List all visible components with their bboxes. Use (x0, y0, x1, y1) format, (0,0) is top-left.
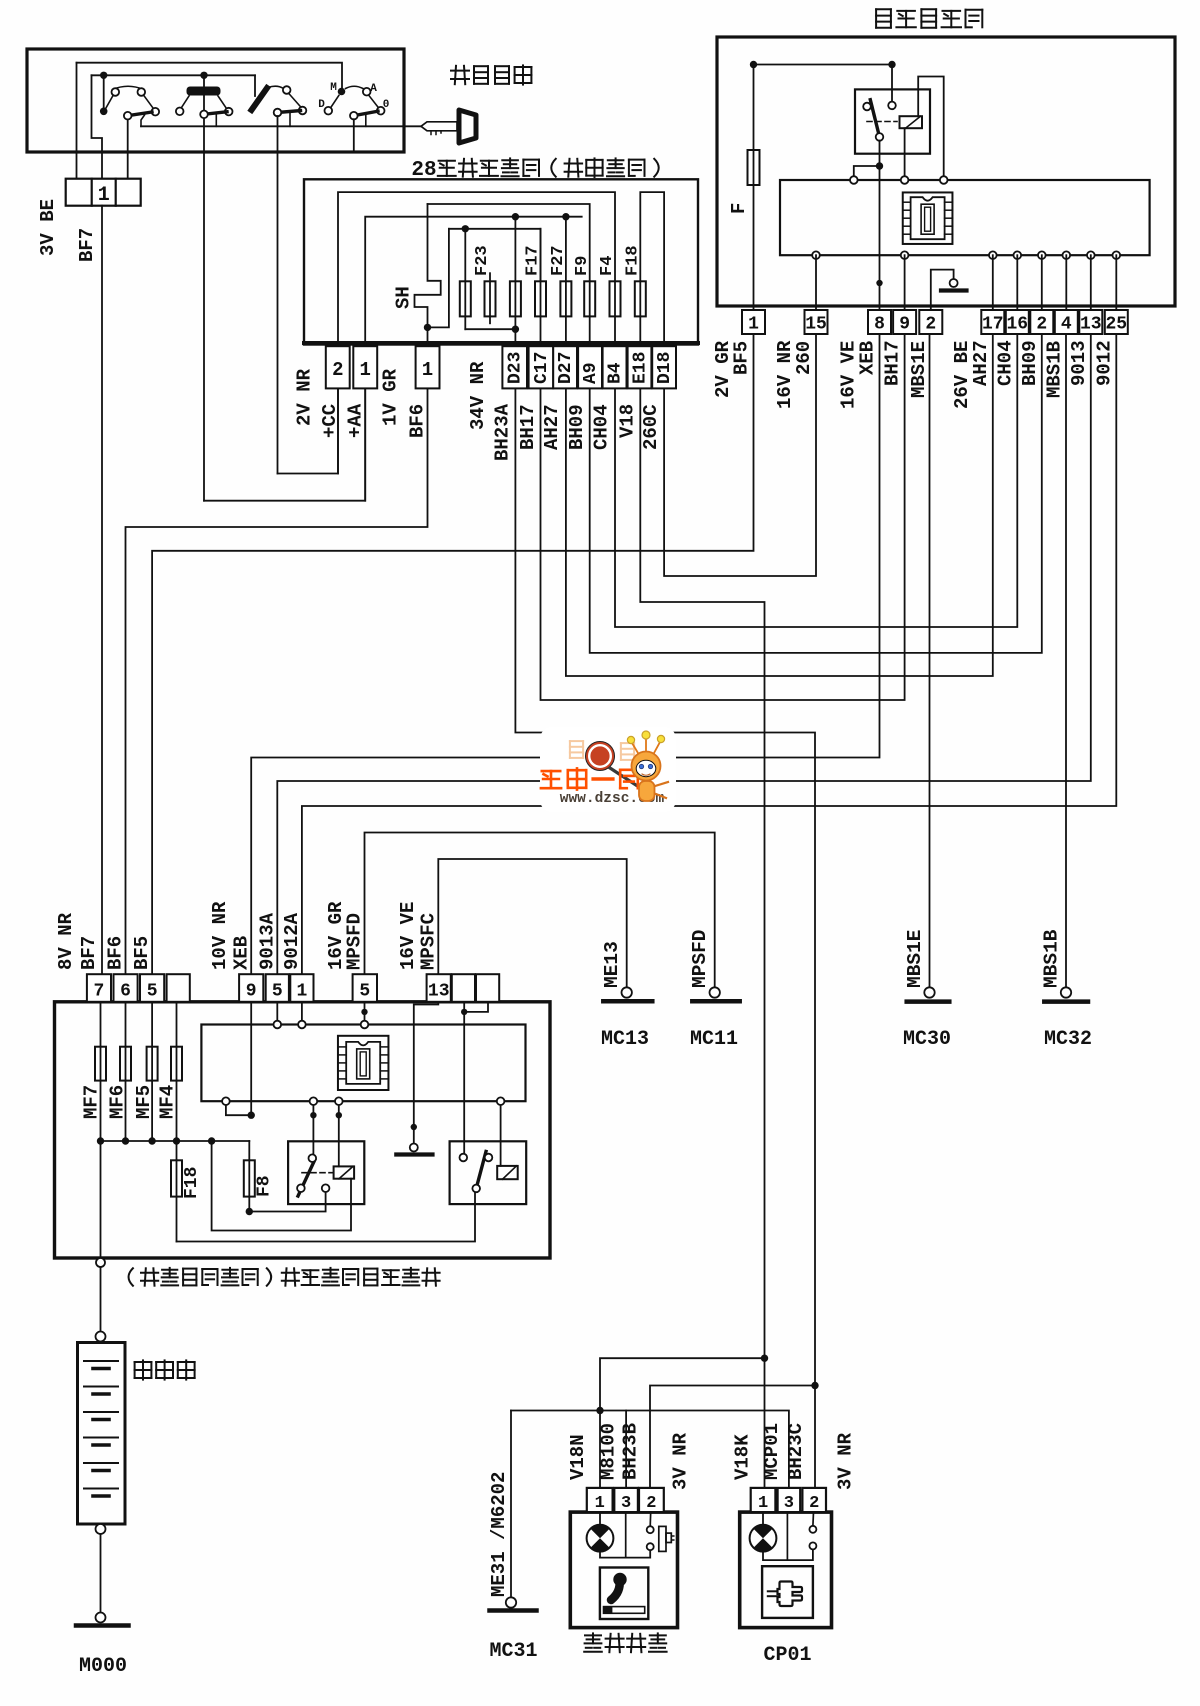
wire relay R1 coil return (212, 1141, 351, 1231)
fuse F18 body (panel) (171, 1160, 182, 1196)
wire S3 stub to key line (289, 112, 291, 126)
pin +AA 1 (353, 346, 377, 388)
svg-text:2: 2 (809, 1494, 819, 1513)
svg-text:2V NR: 2V NR (294, 368, 316, 426)
title 28路熔断器盒（在座舱内） (411, 158, 658, 182)
pin A9 (578, 346, 602, 388)
svg-text:MBS1B: MBS1B (1043, 341, 1065, 398)
svg-text:17: 17 (982, 315, 1004, 335)
svg-text:D27: D27 (556, 352, 576, 384)
svg-text:MF4: MF4 (157, 1085, 179, 1119)
svg-text:9: 9 (246, 982, 257, 1002)
svg-text:260C: 260C (640, 404, 662, 450)
wire lighter pin3 divider (625, 1512, 627, 1558)
svg-text:BH17: BH17 (882, 340, 904, 386)
fuse F column (753, 65, 755, 335)
lighter element contacts (647, 1526, 654, 1533)
switch S2 contacts (176, 96, 233, 115)
switch S4 lever (354, 111, 378, 116)
svg-text:10V NR: 10V NR (209, 901, 231, 970)
wire BF7 connector to panel pin7 (101, 206, 103, 975)
wire BF6 column / L2 rail (428, 204, 590, 281)
wire AH27 route (566, 334, 993, 676)
wire lighter pin2 to contact (649, 1512, 652, 1526)
svg-text:MBS1E: MBS1E (904, 929, 926, 988)
label 蓄电池 (135, 1361, 152, 1363)
switch S1 contacts (100, 86, 159, 115)
svg-text:XEB: XEB (857, 341, 879, 375)
wire panel to battery (100, 1267, 102, 1332)
wire CP01 pin2 to contact (812, 1512, 815, 1526)
svg-text:MC11: MC11 (690, 1028, 738, 1051)
relay R2 switch (460, 1152, 493, 1193)
wire BF6 route (126, 388, 428, 974)
fuse F27 body (560, 281, 571, 316)
wires terminals to pins (815, 255, 817, 310)
wire MF7 column to battery (100, 1002, 102, 1258)
svg-text:1: 1 (422, 359, 433, 381)
svg-text:BF5: BF5 (731, 341, 753, 375)
fuse box (cabin) outline (304, 179, 698, 344)
node L4-fuse1 (462, 225, 469, 232)
svg-text:CP01: CP01 (763, 1644, 811, 1667)
plug icon box (762, 1566, 813, 1618)
svg-text:MCP01: MCP01 (761, 1423, 783, 1480)
ground MC32 (1061, 987, 1071, 997)
ground MC31 (506, 1597, 516, 1607)
panel bottom exit circle (96, 1258, 105, 1267)
svg-text:1: 1 (748, 315, 759, 335)
wire +CC column / L1 rail (338, 192, 615, 473)
pins of panel (87, 974, 111, 1002)
wire F8 to relay R1 (249, 1192, 325, 1212)
wire V18 distribution (600, 1358, 765, 1488)
pin +CC 2 (326, 346, 350, 388)
terminal circles top edge (850, 176, 858, 184)
node F8 bottom (246, 1208, 253, 1215)
key symbol (404, 110, 476, 143)
wire MF4 column (176, 1002, 178, 1141)
wire F8 column (248, 1141, 250, 1212)
wire MF5 column (151, 1002, 153, 1141)
E18-D18 loop rail (640, 192, 664, 388)
wire BH17 route (541, 334, 905, 700)
battery cells (84, 1361, 118, 1496)
wire K1 switch to XEB (879, 141, 881, 310)
svg-text:8V NR: 8V NR (55, 912, 77, 970)
wire CP01 lamp feed (762, 1512, 764, 1525)
wire +CC elbow (278, 388, 339, 473)
ground symbol internal (control box) (950, 279, 958, 287)
wire module to relay R1 switch (312, 1101, 314, 1154)
svg-text:MC13: MC13 (601, 1028, 649, 1051)
svg-text:2: 2 (332, 359, 343, 381)
wire module to XEB (226, 1101, 251, 1115)
svg-text:AH27: AH27 (541, 404, 563, 450)
pin D18 (652, 346, 676, 388)
wire CP01 lamp return link (763, 1550, 813, 1561)
switch S3 contacts (268, 86, 306, 114)
relay K1 switch (863, 100, 897, 141)
wire K1 coil bottom (904, 128, 906, 180)
node BF6 bottom junction (424, 324, 431, 331)
svg-text:BF6: BF6 (407, 404, 429, 438)
svg-text:D: D (318, 99, 325, 111)
wire to connector cell1 (76, 63, 78, 179)
svg-text:5: 5 (272, 982, 283, 1002)
ground symbol internal (panel) (410, 1144, 418, 1152)
switch S4 contacts (325, 86, 385, 114)
wire MPSFC internal ground path (414, 1002, 439, 1144)
wire CP01 pin3 divider (786, 1512, 788, 1560)
svg-text:B4: B4 (605, 362, 625, 384)
wire F18 to relay R2 (177, 1192, 476, 1241)
wire MF6 column (125, 1002, 127, 1141)
fuse MF6 body (120, 1047, 131, 1081)
wire V18 route upper (640, 388, 764, 1358)
fuse F8 body (244, 1160, 255, 1196)
svg-text:2: 2 (925, 315, 936, 335)
panel outline (55, 1002, 551, 1258)
pin B4 (603, 346, 627, 388)
relay R2 coil (497, 1166, 518, 1179)
svg-text:1: 1 (595, 1494, 605, 1513)
IC U1 (control box) (903, 192, 953, 244)
svg-text:F18: F18 (182, 1167, 202, 1199)
label 前点烟器 (585, 1634, 601, 1636)
node XEB diamond (876, 280, 882, 286)
switch S2 bar contact (187, 87, 220, 95)
plug icon (768, 1582, 802, 1607)
svg-text:1: 1 (98, 184, 110, 207)
pin D27 (553, 346, 577, 388)
wire MPSFD stub (364, 1002, 366, 1025)
svg-text:BF7: BF7 (76, 228, 98, 262)
wire MPSFC-ME13 route (438, 859, 626, 988)
wire S4 stub to key line (365, 113, 367, 127)
inner module box (panel) (201, 1025, 525, 1102)
svg-text:C17: C17 (532, 352, 552, 384)
wire step to connector cell2 (92, 75, 103, 179)
intelligent control box outline (717, 37, 1175, 306)
svg-text:MF5: MF5 (133, 1085, 155, 1119)
svg-text:V18N: V18N (567, 1434, 589, 1480)
wire ignition bus 1 (77, 63, 343, 89)
wire CH04 route (615, 334, 1017, 627)
wire +AA elbow (204, 388, 365, 500)
wire MBS1B route (1065, 334, 1067, 988)
pin BF6 1 (416, 346, 440, 388)
watermark dzsc logo (540, 727, 676, 812)
svg-text:MC32: MC32 (1044, 1028, 1092, 1051)
pins of CP01 (751, 1488, 776, 1512)
svg-text:8: 8 (874, 315, 885, 335)
svg-text:D18: D18 (655, 352, 675, 384)
pins of lighter (587, 1488, 613, 1512)
svg-text:13: 13 (1080, 315, 1102, 335)
svg-text:25: 25 (1105, 315, 1127, 335)
pin E18 (628, 346, 652, 388)
svg-text:MBS1B: MBS1B (1040, 929, 1062, 988)
title 智能控制盒 (876, 8, 891, 10)
svg-text:M: M (330, 82, 337, 94)
battery box (78, 1343, 126, 1525)
svg-text:MC31: MC31 (489, 1640, 537, 1663)
wire module to relay R1 coil (338, 1101, 340, 1166)
svg-text:0: 0 (383, 99, 390, 111)
cigarette icon box (600, 1568, 648, 1620)
wire F18 column (176, 1141, 178, 1242)
wire key line (141, 125, 404, 127)
wire S2 stub to key line (215, 114, 217, 127)
svg-text:M8100: M8100 (598, 1423, 620, 1480)
svg-text:3: 3 (784, 1494, 794, 1513)
wire K1 junction elbow (854, 166, 880, 180)
svg-text:BH17: BH17 (517, 404, 539, 450)
relay R1 coil (334, 1166, 355, 1178)
inner module box (control box) (780, 180, 1150, 255)
svg-text:BH23B: BH23B (620, 1423, 642, 1480)
svg-text:V18K: V18K (732, 1434, 754, 1480)
svg-text:9: 9 (899, 315, 910, 335)
svg-text:BH23A: BH23A (492, 403, 514, 461)
relay R1 box (288, 1141, 364, 1204)
svg-text:2: 2 (646, 1494, 656, 1513)
svg-text:15: 15 (805, 315, 827, 335)
wire relay R2 coil feed (500, 1101, 502, 1166)
svg-text:F18: F18 (623, 245, 642, 276)
relay R2 box (450, 1141, 527, 1204)
fuse MF5 body (147, 1047, 158, 1081)
svg-text:F4: F4 (598, 256, 617, 276)
ground MC11 (710, 987, 720, 997)
wire MC31 ground bus (511, 1411, 789, 1488)
fuse F4 body (610, 281, 621, 316)
svg-text:BH09: BH09 (1019, 340, 1041, 386)
wire 9013A stub (276, 1002, 278, 1025)
relay R1 switch (297, 1154, 333, 1196)
svg-text:F23: F23 (473, 245, 492, 276)
svg-text:3V NR: 3V NR (834, 1432, 856, 1490)
svg-text:M000: M000 (79, 1655, 127, 1678)
svg-text:1: 1 (758, 1494, 768, 1513)
svg-text:2: 2 (1036, 315, 1047, 335)
wire S2 +AA column upper (203, 75, 205, 500)
terminal circles bottom edge (812, 251, 820, 259)
svg-text:AH27: AH27 (970, 340, 992, 386)
wire 9012A stub (301, 1002, 303, 1025)
svg-text:34V NR: 34V NR (467, 361, 489, 430)
wire XEB into panel (250, 1002, 252, 1115)
wire lighter lamp return link (600, 1550, 650, 1558)
svg-text:5: 5 (359, 982, 370, 1002)
svg-text:1V GR: 1V GR (380, 368, 402, 426)
wire relay R2 switch feed (464, 1002, 488, 1012)
cigarette icon (604, 1573, 645, 1613)
svg-text:3V BE: 3V BE (37, 199, 59, 256)
svg-text:9012A: 9012A (281, 912, 303, 970)
ground M000 (96, 1613, 106, 1623)
fuse MF4 body (171, 1047, 182, 1081)
svg-text:9013: 9013 (1068, 340, 1090, 386)
svg-text:E18: E18 (630, 352, 650, 384)
switch S3 bar contact (252, 88, 268, 110)
wire MBS1E internal ground (931, 270, 954, 310)
ground MC30 (924, 987, 934, 997)
fuse F23 body (485, 281, 496, 316)
svg-text:16: 16 (1006, 315, 1028, 335)
svg-text:V18: V18 (616, 404, 638, 438)
pins of control box (742, 310, 765, 334)
wire lighter lamp feed (599, 1512, 601, 1525)
title 点火开关 (451, 70, 469, 72)
svg-text:MBS1E: MBS1E (908, 341, 930, 398)
node L3-F27 (562, 213, 569, 220)
wire fuse1 bottom link (465, 328, 515, 330)
node top bus right (888, 61, 895, 68)
svg-text:4: 4 (1061, 315, 1072, 335)
watermark mascot (627, 731, 668, 801)
wire M8100 branch (625, 1411, 627, 1488)
svg-text:3: 3 (621, 1494, 631, 1513)
svg-text:XEB: XEB (230, 936, 252, 970)
wire BH09 route (590, 334, 1042, 653)
svg-text:MPSFD: MPSFD (344, 913, 366, 970)
svg-text:CH04: CH04 (994, 340, 1016, 386)
svg-text:MPSFC: MPSFC (417, 913, 439, 970)
svg-text:260: 260 (793, 341, 815, 375)
wire BH23A route (515, 388, 815, 1385)
svg-text:F: F (728, 203, 750, 214)
svg-text:9013A: 9013A (256, 912, 278, 970)
svg-text:F27: F27 (549, 245, 568, 276)
wire 9012 route (302, 334, 1116, 974)
svg-text:F17: F17 (524, 245, 543, 276)
node K1 switch junction (876, 162, 883, 169)
svg-text:6: 6 (120, 982, 131, 1002)
wire S4 pivot stem (353, 119, 355, 150)
wire 9013 route (277, 334, 1091, 974)
svg-text:F9: F9 (573, 256, 592, 276)
svg-text:1: 1 (359, 359, 370, 381)
wire K1 coil top loop (918, 77, 944, 181)
svg-text:16V VE: 16V VE (397, 902, 419, 970)
ground MC13 (622, 987, 632, 997)
fuse MF7 body (95, 1047, 106, 1081)
wire XEB route (251, 334, 879, 974)
wire S3 +CC column upper (277, 116, 279, 474)
title （在发动机舱内）熔断器盒控制面板 (129, 1268, 133, 1285)
bus bar in panel (101, 1140, 250, 1142)
CP01 contacts (809, 1526, 816, 1533)
svg-text:ME31 /M6202: ME31 /M6202 (488, 1472, 510, 1597)
wire to MC31 (510, 1411, 512, 1598)
shunt SH staircase in BF6 column (415, 204, 441, 327)
wire +AA column / L3 rail (365, 217, 582, 501)
svg-text:13: 13 (428, 982, 450, 1002)
fuse F18 body (635, 281, 646, 316)
switch S2 lever (204, 112, 227, 115)
wire battery to ground (96, 1524, 106, 1534)
node top bus left (750, 61, 757, 68)
node link-D23 (512, 326, 519, 333)
IC U2 (panel) (338, 1036, 389, 1090)
pin D23 (502, 346, 527, 388)
svg-text:SH: SH (393, 286, 415, 309)
node bus2 S2 tap (200, 72, 207, 79)
wire ignition bus 2 (92, 74, 256, 76)
connector BF7 3-way (66, 179, 141, 206)
wire L4 rail (449, 229, 541, 281)
switch S3 lever (278, 111, 301, 113)
svg-text:BF6: BF6 (105, 936, 127, 970)
node XEB internal (248, 1112, 255, 1119)
svg-text:A9: A9 (581, 362, 601, 384)
node L3-fuse3 (512, 213, 519, 220)
ignition switch box (27, 49, 404, 152)
svg-text:7: 7 (94, 982, 105, 1002)
wire BF5 route (152, 334, 753, 974)
pin C17 (529, 346, 554, 388)
fuse col1 body (460, 281, 471, 316)
svg-text:BF7: BF7 (78, 936, 100, 970)
wire BH23 distribution (650, 1386, 815, 1488)
fuse F17 body (535, 281, 546, 316)
node bus2 contact tap (100, 72, 107, 79)
wire MPSFD route (365, 833, 715, 988)
svg-text:BF5: BF5 (131, 936, 153, 970)
wire L4 tap to BF6 (428, 229, 449, 328)
svg-text:1: 1 (296, 982, 307, 1002)
svg-text:3V NR: 3V NR (669, 1432, 691, 1490)
relay K1 top contact wire (891, 65, 893, 102)
svg-text:ME13: ME13 (601, 941, 623, 988)
relay K1 box (855, 89, 930, 153)
wire S1 pivot to connector cell3 (127, 120, 129, 180)
wire 260C route (664, 334, 816, 576)
fuse D23 column body (510, 281, 521, 316)
svg-text:MC30: MC30 (903, 1028, 951, 1051)
svg-text:CH04: CH04 (591, 404, 613, 450)
svg-text:MF6: MF6 (107, 1085, 129, 1119)
CP01 box (740, 1512, 832, 1628)
front lighter box (570, 1512, 677, 1628)
wire MBS1E route (929, 334, 931, 988)
wire top bus in control box (754, 64, 893, 66)
svg-text:+AA: +AA (344, 403, 366, 438)
fuse F body (748, 150, 760, 185)
svg-text:F8: F8 (254, 1175, 274, 1197)
svg-text:D23: D23 (506, 352, 526, 384)
switch S1 lever (128, 112, 152, 116)
fuse F9 body (584, 281, 595, 316)
svg-text:5: 5 (147, 982, 158, 1002)
svg-text:9012: 9012 (1093, 340, 1115, 386)
svg-text:BH09: BH09 (566, 404, 588, 450)
svg-text:MPSFD: MPSFD (689, 929, 711, 988)
svg-text:BH23C: BH23C (785, 1423, 807, 1480)
svg-text:A: A (370, 83, 377, 95)
relay K1 coil (900, 116, 923, 128)
svg-text:MF7: MF7 (81, 1085, 103, 1119)
lighter element icon (659, 1526, 674, 1551)
